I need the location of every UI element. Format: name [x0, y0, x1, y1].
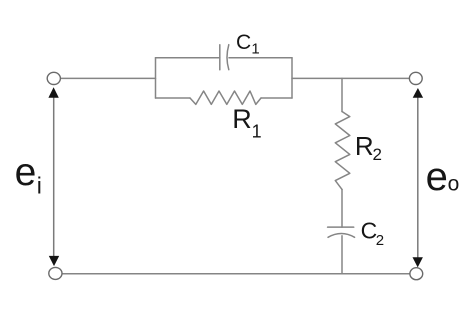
- wire box right edge: [291, 58, 293, 98]
- label e_o: [426, 155, 460, 199]
- label C1: [236, 31, 260, 57]
- capacitor C1: [220, 45, 229, 70]
- arrow e_o head down: [413, 257, 423, 267]
- wire R2 top lead: [341, 78, 343, 111]
- label R1: [232, 104, 261, 142]
- terminal top-right: [409, 72, 422, 84]
- svg-text:1: 1: [251, 40, 259, 57]
- arrow e_i head down: [49, 256, 59, 266]
- wire bottom rail: [62, 273, 411, 275]
- svg-text:e: e: [15, 151, 37, 194]
- wire box top edge left part: [156, 57, 220, 59]
- terminal top-left: [47, 72, 60, 84]
- wire box top edge right part: [229, 57, 292, 59]
- svg-text:1: 1: [252, 121, 262, 141]
- label C2: [361, 218, 384, 249]
- svg-text:o: o: [448, 173, 460, 196]
- terminal bottom-left: [49, 267, 62, 279]
- svg-text:i: i: [37, 173, 42, 199]
- wire C2 bottom lead: [341, 236, 343, 274]
- svg-text:e: e: [426, 155, 448, 199]
- wire R2 to C2: [341, 189, 343, 227]
- wire box bottom edge left part: [156, 97, 191, 99]
- label e_i: [15, 151, 42, 199]
- svg-text:R: R: [355, 131, 374, 161]
- svg-text:C: C: [236, 31, 251, 54]
- capacitor C2: [328, 227, 355, 237]
- arrow e_i stem: [53, 97, 55, 258]
- svg-text:2: 2: [373, 145, 382, 164]
- terminal bottom-right: [410, 268, 423, 280]
- wire box bottom edge right part: [261, 97, 292, 99]
- wire top rail left: [61, 77, 156, 79]
- arrow e_o stem: [417, 97, 419, 259]
- wire top rail right: [292, 77, 409, 79]
- arrow e_i head up: [48, 87, 58, 98]
- resistor R2: [335, 112, 350, 190]
- arrow e_o head up: [413, 88, 423, 98]
- resistor R1: [190, 91, 261, 104]
- wire box left edge: [155, 58, 157, 98]
- label R2: [355, 131, 382, 164]
- svg-text:2: 2: [376, 232, 384, 249]
- svg-text:R: R: [232, 104, 252, 134]
